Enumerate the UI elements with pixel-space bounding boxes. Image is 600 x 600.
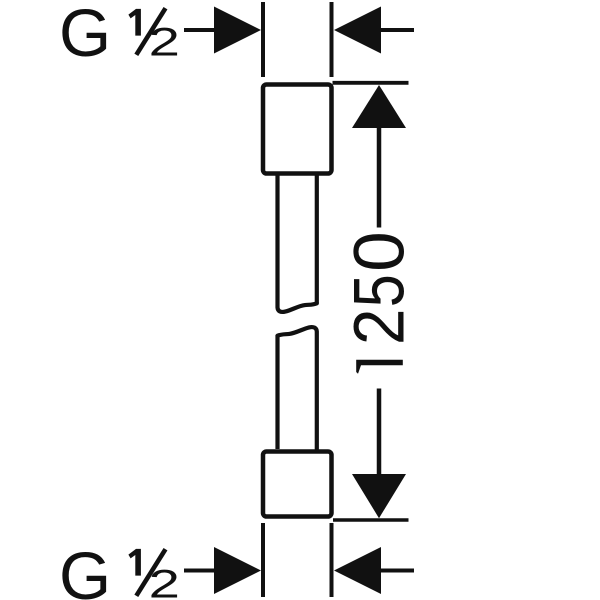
dimension line 1250 lower segment (377, 389, 382, 476)
top fraction numerator 1 (custom glyph) (128, 9, 141, 36)
bottom fraction numerator 1 (custom glyph) (128, 549, 141, 576)
top fraction slash (136, 8, 165, 55)
down arrowhead of 1250 dimension (352, 474, 406, 518)
svg-text:5: 5 (341, 274, 420, 307)
top dimension arrow right (points left) (380, 28, 414, 32)
bottom horizontal extension line for 1250 dimension (333, 518, 409, 522)
svg-text:0: 0 (341, 231, 420, 272)
top connector rectangle (263, 85, 332, 174)
bottom dimension arrow left (points right) (184, 569, 218, 573)
hose upper segment right wall (315, 175, 319, 304)
top horizontal extension line for 1250 dimension (333, 81, 409, 85)
bottom dimension arrow right (points left) (380, 569, 414, 573)
svg-text:G: G (59, 0, 111, 71)
extension line top-right (330, 2, 334, 77)
hose lower segment right wall (278, 327, 317, 449)
svg-text:G: G (59, 539, 111, 600)
extension line bottom-right (330, 523, 334, 597)
hose lower segment left wall (275, 336, 279, 450)
hose upper segment left wall (278, 175, 317, 312)
extension line bottom-left (261, 523, 265, 597)
svg-text:2: 2 (341, 309, 420, 346)
bottom dimension label G 1/2 (59, 539, 111, 600)
top dimension label G 1/2 (59, 0, 111, 71)
up arrowhead of 1250 dimension (352, 85, 406, 128)
dimension line 1250 upper segment (377, 126, 382, 228)
label 1250 digit one (custom glyph) (356, 360, 403, 374)
bottom connector rectangle (263, 452, 332, 517)
extension line top-left (261, 2, 265, 77)
bottom fraction slash (136, 549, 165, 596)
top dimension arrow left (points right) (184, 28, 218, 32)
